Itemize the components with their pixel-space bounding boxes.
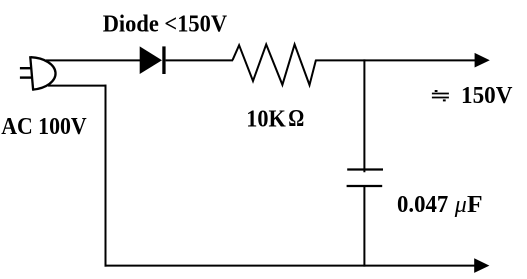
svg-text:150V: 150V xyxy=(461,83,513,109)
plug P1 (AC source) xyxy=(20,56,56,90)
svg-text:Ω: Ω xyxy=(288,106,304,132)
symbol: approximately equal (≒) xyxy=(432,90,449,101)
wire: junction down to capacitor xyxy=(363,59,365,172)
svg-text:μ: μ xyxy=(454,192,467,218)
svg-text:F: F xyxy=(467,192,483,218)
diode D1 xyxy=(140,46,166,74)
svg-text:AC 100V: AC 100V xyxy=(1,114,87,140)
wire: capacitor to bottom wire xyxy=(363,186,365,267)
capacitor C1 xyxy=(347,170,383,187)
wire top: plug to diode xyxy=(46,59,141,61)
resistor R1 xyxy=(233,44,317,85)
svg-text:0.047: 0.047 xyxy=(397,192,448,218)
wire: plug lower lead to left vertical xyxy=(48,85,107,87)
wire: diode to resistor xyxy=(166,59,233,61)
wire bottom: left to arrow xyxy=(105,265,477,267)
arrowhead bottom output xyxy=(474,258,489,273)
arrowhead top output xyxy=(475,53,490,68)
plug prong lower xyxy=(20,76,32,78)
plug prong upper xyxy=(20,67,32,69)
wire: resistor to output arrow xyxy=(316,59,477,61)
svg-text:10K: 10K xyxy=(246,107,286,133)
wire: left vertical drop xyxy=(105,85,107,267)
svg-text:Diode <150V: Diode <150V xyxy=(103,11,228,37)
